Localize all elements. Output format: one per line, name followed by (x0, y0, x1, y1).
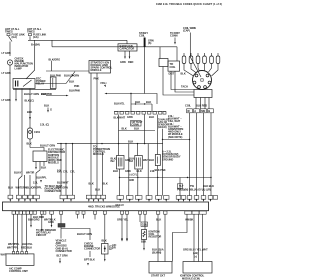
wire check engine tail (84, 251, 95, 266)
svg-text:BLK/LT GRN: BLK/LT GRN (24, 92, 39, 96)
svg-text:RED BLK: RED BLK (21, 245, 32, 249)
connector J1 comb strip (114, 112, 166, 115)
node resistor label (141, 230, 161, 244)
svg-text:B+ (B4): B+ (B4) (31, 42, 40, 46)
svg-text:CONN: CONN (131, 123, 139, 127)
boxed label rail drop (177, 184, 182, 188)
svg-text:GRN: GRN (125, 169, 131, 173)
svg-text:(+) CYL: (+) CYL (129, 173, 138, 177)
svg-text:GRN: GRN (48, 220, 54, 224)
node O2 sensor label (158, 118, 170, 130)
node inj bottom labels (113, 169, 155, 173)
wire coil down (144, 47, 146, 94)
arrow relay out1 (15, 99, 17, 102)
svg-text:COIL: COIL (185, 104, 191, 108)
wire TFI to dist 1 (171, 71, 194, 89)
wire jog pin 186 (173, 214, 188, 261)
svg-text:BLK: BLK (113, 169, 118, 173)
svg-text:BLK/YEL: BLK/YEL (114, 102, 125, 106)
svg-text:TW: TW (190, 184, 195, 188)
wire lamp down (9, 65, 11, 195)
node dist module label (48, 148, 65, 165)
node BLK labels y101 (135, 100, 151, 104)
wire rail taps down (61, 144, 73, 196)
svg-text:BLK/LT GRN: BLK/LT GRN (64, 74, 79, 78)
spark plug P5 (209, 53, 214, 72)
wire stub 48 (51, 214, 53, 227)
svg-text:RED: RED (128, 60, 133, 64)
svg-text:INJ: INJ (111, 159, 115, 163)
svg-text:(HEGO): (HEGO) (158, 125, 167, 129)
distributor body U3 (194, 90, 212, 98)
svg-text:BLK PNK: BLK PNK (50, 74, 61, 78)
node AC pin labels (7, 242, 33, 249)
fuse link F2 (29, 33, 47, 40)
svg-text:BLK PNK: BLK PNK (155, 168, 166, 172)
node BLK labels y128 (122, 127, 140, 131)
arrow contact (72, 74, 74, 77)
wire relay out1 (15, 89, 17, 100)
lamp L1 check engine (7, 60, 12, 65)
svg-text:C201: C201 (34, 130, 41, 134)
wire cap feed (104, 214, 106, 243)
ICM box 1 (149, 262, 172, 274)
wire ICM feed 1 (157, 214, 159, 261)
svg-text:BLK RED: BLK RED (196, 104, 207, 108)
svg-text:INJ: INJ (129, 159, 133, 163)
node module arrow label (101, 81, 108, 87)
wire module out2 (96, 73, 98, 195)
svg-text:TLT: TLT (179, 184, 184, 188)
wire col to distmod (30, 148, 44, 152)
wire TFI to dist 3 (163, 67, 194, 96)
svg-text:BLK: BLK (135, 100, 140, 104)
svg-text:2.3L: 2.3L (57, 169, 62, 173)
svg-text:BLK: BLK (181, 72, 186, 76)
wire TFI to dist 2 (175, 71, 194, 92)
TFI box A (159, 59, 168, 67)
module U1 ignition module box (89, 61, 113, 74)
node HOT AT ALL TIMES label (5, 27, 20, 34)
pin box row mid (60, 195, 106, 199)
spark plug P4 (203, 53, 207, 71)
distributor module box U4 (33, 151, 47, 162)
wire resistor tail (143, 240, 145, 251)
wire injector rail (57, 143, 163, 145)
wire ground rail right (120, 177, 212, 179)
wire drop 152 (151, 104, 153, 112)
node TO AC clutch label (36, 228, 56, 237)
svg-text:BLK/Y: BLK/Y (14, 171, 22, 175)
connector C201 inline (27, 128, 40, 139)
pin box row right (176, 196, 217, 200)
wire arrow 127 (126, 214, 128, 241)
node HOT IN START label (27, 27, 42, 34)
svg-text:AW/BK: AW/BK (185, 217, 194, 221)
svg-text:WHT PPL: WHT PPL (7, 245, 19, 249)
wire y104 jumper (131, 103, 152, 105)
svg-text:(BLK/N): (BLK/N) (152, 251, 161, 255)
svg-text:CYL: CYL (63, 170, 68, 174)
node mid pin labels (56, 169, 108, 192)
svg-text:BLK: BLK (69, 80, 74, 84)
svg-text:BLK: BLK (102, 239, 107, 243)
svg-text:WHT: WHT (1, 253, 7, 257)
svg-text:BLK: BLK (149, 158, 154, 162)
node EEC box text (88, 203, 124, 209)
wire mid pin drop (102, 152, 104, 195)
node cyl labels (57, 170, 75, 174)
wire rail2 to TFI A (159, 47, 161, 59)
boxed label pin61 (58, 224, 65, 228)
wire rail drop 180 (179, 178, 181, 196)
svg-text:BLK: BLK (8, 186, 13, 190)
svg-text:BLK/LT GRN: BLK/LT GRN (77, 232, 92, 236)
wire egr down (157, 166, 159, 196)
svg-text:BLK BLK: BLK BLK (203, 184, 214, 188)
connector C100 (50, 77, 56, 89)
wire resistor feed (144, 214, 146, 229)
wire blk jumper y130 (119, 130, 156, 132)
svg-text:PW(B)(M) DBL(A) GY(A) L(R): PW(B)(M) DBL(A) GY(A) L(R) (177, 187, 211, 191)
svg-text:(S): (S) (148, 41, 151, 45)
svg-text:MODULE: MODULE (91, 68, 102, 72)
wire comb drop right (157, 115, 159, 144)
spark plug P1 (182, 53, 193, 76)
svg-text:B: B (208, 109, 210, 113)
pin labels dist (187, 109, 214, 113)
node below-pin labels left (28, 215, 56, 224)
svg-text:BLK: BLK (128, 140, 133, 144)
wire rail2 feed (51, 40, 53, 47)
node HEGO connector label (56, 239, 72, 253)
node powertrain label block (93, 144, 110, 156)
svg-text:(SEE NOTE): (SEE NOTE) (168, 135, 182, 139)
svg-text:LT GRN: LT GRN (2, 51, 11, 55)
svg-text:BLK: BLK (134, 127, 139, 131)
svg-text:2.3L (C): 2.3L (C) (40, 123, 49, 127)
svg-text:GND: GND (129, 178, 135, 182)
pin box row injectors (117, 196, 169, 200)
svg-text:BLK: BLK (141, 240, 146, 244)
svg-text:BLK: BLK (95, 188, 100, 192)
svg-text:BPT BLK: BPT BLK (84, 258, 95, 262)
svg-text:CONN: CONN (170, 33, 178, 37)
svg-text:PPL: PPL (37, 186, 42, 190)
AC compressor connector pins (12, 252, 27, 254)
svg-text:WHT/PPL: WHT/PPL (8, 242, 20, 246)
relay K1 EEC power relay (13, 79, 35, 89)
wire distmod out3 (41, 162, 46, 170)
wire horiz to module (46, 70, 89, 72)
wire legend link (163, 139, 190, 141)
wire ICM feed 2 (164, 214, 166, 261)
wire spare stubs (78, 214, 96, 219)
switch S1 ignition (9, 36, 13, 56)
svg-text:START CKT: START CKT (151, 274, 165, 278)
wire short pin 24.5 (24, 175, 26, 195)
node check engine conn label (84, 242, 100, 251)
wire AC comp 2 (17, 214, 19, 251)
svg-text:TACH: TACH (181, 85, 188, 89)
svg-text:BLK/PNK: BLK/PNK (41, 92, 52, 96)
svg-text:LT GRN: LT GRN (2, 71, 11, 75)
wire inj1 down (119, 169, 121, 196)
node ICM wire labels (152, 248, 164, 255)
wire ICM2 feed 2 (197, 214, 199, 261)
svg-text:BLK/LT GRN: BLK/LT GRN (40, 143, 55, 147)
svg-text:(+): (+) (194, 255, 197, 259)
svg-text:2.9L: 2.9L (150, 169, 155, 173)
wire rail end drop (129, 144, 148, 196)
node EEC POWER RELAY label (36, 77, 46, 86)
svg-text:FRL>: FRL> (101, 81, 108, 85)
node BLK/PPL label (33, 176, 47, 185)
svg-text:COIL: COIL (139, 33, 145, 37)
svg-text:GROUND: GROUND (162, 157, 173, 161)
node bottom labels mid (117, 218, 129, 222)
node diagnostic connector label (45, 184, 63, 193)
wire AC comp 3 (21, 214, 23, 251)
wire coil to cap (190, 33, 201, 78)
injector INJ2 (129, 144, 149, 169)
wire relay feed (26, 40, 35, 79)
switch S2 contact (66, 72, 75, 84)
svg-text:BLK (C): BLK (C) (25, 99, 34, 103)
svg-text:GRN: GRN (120, 60, 126, 64)
wire rail B+ top (28, 39, 127, 41)
wire dist vertical 3 (203, 113, 205, 196)
wire relay to connector (35, 83, 66, 85)
node BLK ground cluster (44, 104, 52, 113)
wire rail1 into alt (126, 40, 128, 44)
svg-text:(GA): (GA) (33, 35, 39, 39)
svg-text:MN: MN (201, 109, 205, 113)
svg-text:BLK/YEL: BLK/YEL (22, 242, 33, 246)
svg-text:BLK: BLK (149, 115, 154, 119)
wire arrow out (46, 95, 66, 97)
junction dot legend (189, 139, 190, 140)
alternator box A1 (118, 44, 137, 51)
svg-text:1988 2.9L TROUBLE CODES QUICK: 1988 2.9L TROUBLE CODES QUICK CHART (1 o… (156, 2, 222, 6)
AC compressor box U6 (6, 254, 34, 266)
sensor EGR (149, 144, 160, 166)
svg-text:EEC-IV: EEC-IV (116, 203, 125, 207)
node coil label (139, 31, 148, 38)
spark plug P3 (196, 53, 200, 71)
svg-text:BLK/PNK: BLK/PNK (69, 89, 80, 93)
node ICM box2 label (180, 274, 205, 280)
svg-text:GRN: GRN (127, 115, 133, 119)
distributor cap U2 (193, 71, 212, 90)
node comb labels (114, 115, 155, 120)
wire rail2 (52, 46, 177, 48)
node rail mid label (129, 173, 138, 182)
svg-text:RESISTOR: RESISTOR (149, 235, 162, 239)
svg-text:LAMP: LAMP (15, 67, 22, 71)
pins below EEC left (12, 211, 106, 214)
node TO DIST label (170, 31, 180, 45)
node o2 ground label (162, 150, 181, 162)
svg-text:BLK: BLK (122, 127, 127, 131)
arrows into EEC (9, 199, 211, 202)
wire hego tail (57, 254, 68, 264)
svg-text:CIRCUIT: CIRCUIT (36, 233, 47, 237)
node left pin color labels (8, 186, 42, 190)
wire left short pins (30, 173, 36, 195)
node ICM2 wire labels (183, 248, 208, 259)
node BLK label col (2, 98, 50, 127)
wire left col drop (29, 126, 31, 128)
wire relay out2 long (19, 89, 22, 196)
node TFI label (169, 72, 186, 76)
wire ICM2 feed 1 (193, 214, 195, 261)
wire module out1 (90, 73, 92, 195)
node coil/blk labels (185, 104, 207, 108)
node right pin labels rows (177, 184, 214, 192)
svg-text:WHT/R: WHT/R (26, 171, 34, 175)
svg-text:CONNECTOR: CONNECTOR (45, 189, 61, 193)
wire comb to rail 2 (144, 115, 146, 144)
junction dot tach (130, 93, 131, 94)
fuse link F1 (7, 33, 25, 40)
svg-text:CAPACITOR: CAPACITOR (120, 47, 135, 51)
spark plug P2 (189, 53, 196, 73)
connector label box C2 (131, 120, 143, 127)
wire ICM2 feed 3 (201, 214, 203, 261)
svg-text:BLK: BLK (27, 110, 32, 114)
wire hego drop (162, 129, 164, 196)
svg-text:BLK RED: BLK RED (33, 215, 44, 219)
arrow out right (66, 95, 69, 97)
wire dist vertical 4 (210, 113, 212, 196)
legend text block right (168, 114, 184, 139)
svg-text:PNK: PNK (94, 77, 99, 81)
svg-text:(CAP): (CAP) (183, 29, 190, 33)
node coil wire label (183, 26, 196, 33)
svg-text:BLK: BLK (156, 217, 161, 221)
svg-text:MODULE (ICM): MODULE (ICM) (182, 276, 200, 280)
spark plug P6 (212, 53, 220, 76)
wire stub 38 (41, 214, 43, 231)
svg-text:MODELS: MODELS (48, 161, 59, 165)
svg-text:BLK: BLK (27, 142, 32, 146)
svg-text:G: G (50, 108, 52, 112)
svg-text:BLK: BLK (41, 166, 46, 170)
resistor R1 (142, 230, 147, 240)
svg-text:(+B): (+B) (193, 251, 198, 255)
wire col down2 (29, 139, 31, 148)
wire dist vertical 1 (189, 113, 191, 196)
wire dist stubs (196, 98, 209, 109)
boxed label pin141 (141, 222, 148, 226)
wire blkorg drop (51, 61, 53, 71)
svg-text:DIST: DIST (169, 72, 175, 76)
pins below EEC right (121, 211, 207, 214)
wire relay bottom rail (13, 89, 56, 91)
svg-text:COIL: COIL (170, 65, 176, 69)
node BLK PNK labels (50, 74, 79, 78)
svg-text:CONNECTOR: CONNECTOR (84, 247, 100, 251)
wire fuse2 to rail (29, 36, 31, 40)
EEC-IV module box U5 (3, 202, 209, 211)
node check engine lamp label (15, 57, 34, 71)
junction dots ground rail (119, 177, 212, 178)
node alt stub labels (120, 60, 133, 64)
wire dist vertical 2 (196, 113, 198, 196)
svg-text:BLK: BLK (137, 169, 142, 173)
svg-text:BLK: BLK (103, 182, 108, 186)
wire tach branch (130, 94, 132, 112)
svg-text:BLK: BLK (44, 104, 49, 108)
node BLK label mid (69, 80, 80, 93)
svg-text:A: A (194, 109, 196, 113)
wire stub 32 (30, 214, 32, 227)
injector INJ1 (111, 144, 131, 169)
svg-text:BLK: BLK (146, 100, 151, 104)
svg-text:DR: DR (112, 246, 116, 250)
svg-text:PNK: PNK (74, 84, 79, 88)
svg-text:BLT GRN: BLT GRN (57, 254, 68, 258)
wire AC comp 4 (26, 214, 28, 251)
wire rail2 end drop (176, 47, 178, 61)
node coil tail label (148, 39, 154, 46)
wire inj2 down (137, 169, 139, 196)
svg-text:(GA): (GA) (12, 35, 18, 39)
wire to-module arrow (104, 93, 157, 104)
svg-text:CONTROL UNIT: CONTROL UNIT (9, 269, 28, 273)
wire AC comp 1 (13, 214, 15, 251)
wire pin61 branch (61, 214, 90, 240)
svg-text:BLK/ORG: BLK/ORG (49, 57, 61, 61)
svg-text:CYL: CYL (70, 170, 75, 174)
svg-text:C(B): C(B) (142, 222, 147, 226)
node cap label (109, 245, 113, 252)
wire relay out3 (29, 89, 31, 127)
TFI module box B (168, 61, 180, 71)
node AC compressor label (9, 267, 28, 274)
svg-text:BLK/WHT: BLK/WHT (114, 116, 126, 120)
svg-text:CONNECTOR: CONNECTOR (56, 249, 72, 253)
wire distmod out1 (35, 162, 37, 170)
wire cap tail (104, 254, 106, 262)
wire comb to rail 1 (118, 115, 120, 144)
ICM box 2 (183, 262, 212, 274)
wire alt stubs (124, 51, 130, 59)
wire arrow 122 (121, 214, 123, 241)
wire pin140 stub (139, 214, 141, 222)
junction dots y104 (135, 103, 146, 104)
svg-text:LT GRN: LT GRN (2, 98, 11, 102)
wire distmod out2 (36, 162, 40, 174)
pin box row left (8, 195, 39, 199)
junction dots rail (60, 143, 145, 144)
node left bottom text (112, 243, 116, 250)
svg-text:BLK/PPL: BLK/PPL (36, 176, 47, 180)
capacitor C3 box (102, 244, 109, 255)
node left pin labels row (14, 171, 34, 175)
capacitor C1 thick bar (144, 38, 146, 48)
svg-text:BLK: BLK (89, 182, 94, 186)
